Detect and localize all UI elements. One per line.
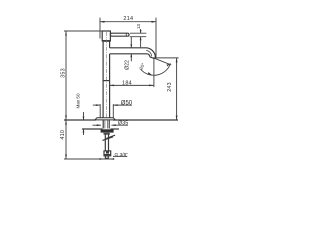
svg-text:20°: 20°	[138, 62, 146, 71]
svg-text:243: 243	[167, 82, 173, 92]
svg-text:214: 214	[123, 16, 133, 22]
svg-text:13: 13	[136, 24, 141, 30]
svg-text:410: 410	[60, 130, 66, 140]
svg-text:Ø35: Ø35	[118, 121, 128, 127]
svg-text:184: 184	[122, 80, 132, 86]
svg-text:Ø50: Ø50	[121, 101, 133, 107]
svg-text:Ø22: Ø22	[125, 60, 131, 70]
svg-text:G 3/8”: G 3/8”	[115, 152, 129, 158]
svg-text:Max 50: Max 50	[76, 93, 81, 109]
svg-text:353: 353	[60, 68, 66, 78]
